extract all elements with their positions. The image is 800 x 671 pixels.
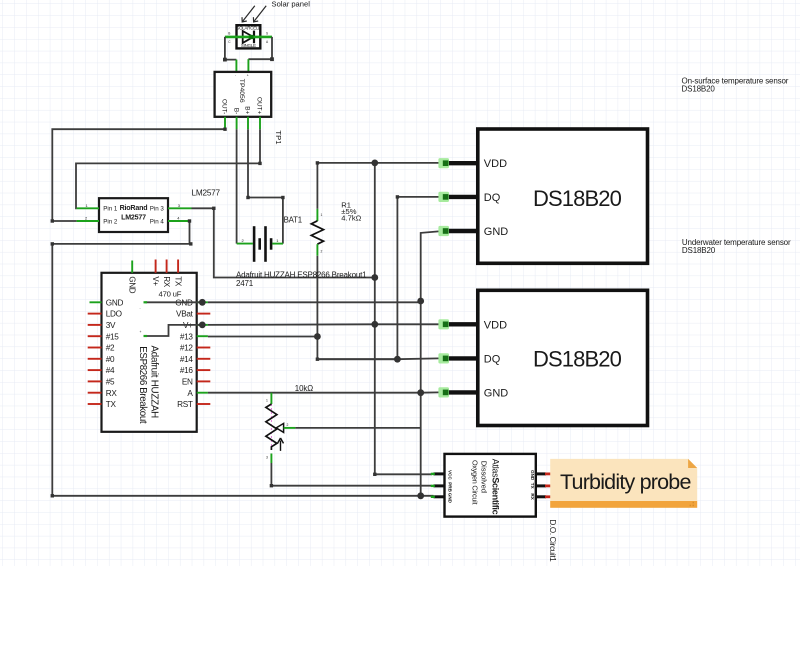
- svg-text:TP1: TP1: [274, 130, 283, 144]
- wire solar right to TP4056 IN+: [248, 37, 272, 59]
- svg-text:-: -: [235, 74, 236, 78]
- solar panel PV1: [225, 25, 272, 48]
- top pin stubs: [131, 261, 133, 273]
- potentiometer 10k: [266, 393, 296, 463]
- svg-text:GND: GND: [106, 298, 124, 307]
- svg-text:RioRand: RioRand: [120, 204, 148, 212]
- svg-text:+: +: [140, 330, 142, 334]
- label Adafruit HUZZAH ESP8266 Breakout1: [236, 270, 367, 288]
- svg-text:TP4056: TP4056: [238, 79, 245, 103]
- svg-text:#5: #5: [106, 378, 115, 387]
- svg-text:VDD: VDD: [484, 158, 507, 170]
- svg-text:OUT-: OUT-: [221, 99, 228, 114]
- svg-text:B-: B-: [232, 108, 239, 114]
- svg-text:SOLARCELL: SOLARCELL: [236, 26, 261, 31]
- Atlas Scientific D.O. circuit U2: [431, 454, 552, 517]
- wire corner square: [373, 473, 376, 476]
- svg-text:DQ: DQ: [484, 192, 501, 204]
- svg-text:B+: B+: [244, 106, 251, 114]
- svg-text:LM2577: LM2577: [121, 213, 146, 221]
- svg-text:GND: GND: [447, 493, 452, 504]
- svg-text:AtlasScientific: AtlasScientific: [490, 459, 500, 515]
- svg-text:1: 1: [321, 213, 323, 217]
- right pins: [536, 474, 546, 497]
- svg-text:Turbidity probe: Turbidity probe: [560, 470, 691, 494]
- wire TP4056 OUT+ to LM2577 Pin1: [76, 129, 260, 208]
- label D.O. Circuit1: [548, 520, 557, 563]
- svg-text:Adafruit HUZZAH: Adafruit HUZZAH: [149, 346, 160, 419]
- svg-text:D.O. Circuit1: D.O. Circuit1: [548, 520, 557, 563]
- wire ESP GND to ground vertical: [208, 301, 421, 303]
- svg-text:GND: GND: [484, 387, 509, 399]
- right stubs green (connected): [197, 302, 208, 392]
- wire DS18B20-1 DQ down: [397, 197, 438, 359]
- svg-text:Pin 4: Pin 4: [150, 218, 165, 225]
- svg-text:Pin 3: Pin 3: [150, 206, 165, 213]
- note Turbidity probe: [550, 459, 697, 508]
- DS18B20 sensor 1: [438, 129, 647, 263]
- wire LM2577 Pin4 to ground bus: [52, 221, 433, 496]
- svg-text:S: S: [266, 31, 268, 35]
- svg-text:RX: RX: [530, 493, 535, 500]
- wire R1 bottom to DQ rail: [317, 256, 397, 360]
- svg-text:DS18B20: DS18B20: [682, 246, 716, 255]
- wire pot bottom to Atlas PRB: [271, 463, 431, 486]
- wire corner square: [270, 484, 273, 487]
- junction squares solar wires: [223, 57, 274, 61]
- svg-text:PRB: PRB: [447, 482, 452, 492]
- wire TP4056 B+ to battery pin1: [248, 129, 283, 243]
- svg-text:EN: EN: [182, 378, 193, 387]
- note label: Solar panel: [272, 0, 311, 9]
- svg-text:-: -: [140, 307, 141, 311]
- annotation Underwater sensor: [682, 238, 791, 255]
- DS18B20 sensor 2: [438, 290, 647, 425]
- svg-text:V+: V+: [151, 276, 160, 286]
- light arrow 1: [242, 6, 255, 22]
- svg-text:Solar panel: Solar panel: [272, 0, 311, 9]
- left pin labels: [106, 298, 124, 409]
- svg-text:Pin 1: Pin 1: [103, 206, 118, 213]
- svg-text:3V: 3V: [106, 321, 116, 330]
- svg-text:DS18B20: DS18B20: [533, 186, 622, 211]
- svg-text:RX: RX: [162, 276, 171, 287]
- ESP8266 breakout U1: [88, 260, 211, 432]
- resistor R1: [311, 209, 323, 256]
- power vertical rail: [375, 163, 432, 474]
- svg-text:Pin 2: Pin 2: [103, 218, 118, 225]
- label TP1: [274, 130, 283, 144]
- svg-text:LM2577: LM2577: [192, 188, 221, 197]
- inner title: [137, 346, 160, 424]
- svg-text:10kΩ: 10kΩ: [295, 384, 313, 393]
- svg-text:#4: #4: [106, 366, 115, 375]
- svg-text:#15: #15: [106, 332, 120, 341]
- svg-text:Adafruit HUZZAH ESP8266 Breako: Adafruit HUZZAH ESP8266 Breakout1: [236, 270, 367, 279]
- boost converter LM2577: [77, 198, 192, 232]
- wire R1 top to VDD rail: [316, 163, 318, 209]
- svg-text:LDO: LDO: [106, 310, 122, 319]
- label R1 value: [341, 200, 361, 222]
- svg-text:RST: RST: [177, 400, 193, 409]
- svg-text:DS18B20: DS18B20: [682, 85, 716, 94]
- svg-text:Dissolved: Dissolved: [480, 461, 489, 493]
- svg-text:#16: #16: [180, 366, 194, 375]
- ground vertical rail: [420, 301, 422, 496]
- svg-text:GND: GND: [127, 276, 136, 293]
- svg-text:TX: TX: [106, 400, 117, 409]
- svg-text:3: 3: [266, 456, 268, 460]
- TP4056 top legs: [236, 59, 248, 72]
- svg-text:#13: #13: [180, 332, 194, 341]
- light arrow 2: [253, 6, 266, 22]
- junction dots: [199, 160, 424, 500]
- svg-text:470 uF: 470 uF: [159, 290, 182, 299]
- wire ESP #13 to DQ rail: [208, 336, 318, 338]
- svg-text:DQ: DQ: [484, 353, 501, 365]
- wire corner square: [396, 195, 399, 198]
- svg-text:#12: #12: [180, 344, 194, 353]
- svg-text:+: +: [247, 74, 249, 78]
- annotation On-surface sensor: [682, 77, 789, 94]
- left stubs: [90, 301, 102, 303]
- wire corner squares: [51, 128, 285, 223]
- left pins: [434, 474, 445, 497]
- label 10k: [295, 384, 313, 393]
- wire DQ rail to DS18B20-2 DQ: [317, 357, 438, 360]
- wire VDD rail to DS18B20-1 VDD: [317, 162, 438, 164]
- wire TP4056 B- to battery pin2: [236, 129, 238, 243]
- wire DS18B20-1 GND down: [421, 231, 439, 301]
- wire ESP V+ to DS18B20-2 VDD: [208, 323, 439, 326]
- svg-text:TX: TX: [530, 483, 535, 490]
- svg-text:BAT1: BAT1: [284, 215, 302, 224]
- svg-text:RX: RX: [106, 389, 118, 398]
- wire TP4056 OUT- to LM2577 Pin2: [52, 129, 225, 221]
- battery BAT1: [237, 226, 283, 262]
- svg-text:2: 2: [287, 423, 289, 427]
- svg-text:A: A: [187, 389, 193, 398]
- wire pot wiper: [295, 427, 420, 429]
- svg-text:GND: GND: [530, 470, 535, 481]
- label LM2577: [192, 188, 221, 197]
- svg-text:ESP8266 Breakout: ESP8266 Breakout: [137, 346, 148, 424]
- label BAT1: [284, 215, 302, 224]
- svg-text:TX: TX: [173, 276, 182, 287]
- capacitor C1 470uF: [140, 290, 203, 336]
- wire LM2577 Pin3 to power junction: [192, 208, 376, 277]
- svg-text:GND: GND: [484, 226, 509, 238]
- svg-text:4.7kΩ: 4.7kΩ: [341, 213, 361, 222]
- svg-text:DS18B20: DS18B20: [533, 347, 622, 372]
- wire corner squares: [316, 161, 319, 361]
- charger module TP4056: [215, 72, 272, 129]
- svg-text:B: B: [228, 31, 230, 35]
- svg-text:2471: 2471: [236, 279, 254, 288]
- wire corner squares: [51, 207, 216, 498]
- wire ESP A to pot / DS18B20-2 GND: [208, 391, 439, 393]
- svg-text:1: 1: [266, 399, 268, 403]
- svg-text:OUT+: OUT+: [256, 97, 263, 114]
- svg-text:#2: #2: [106, 344, 115, 353]
- wire solar left to TP4056 IN-: [225, 37, 237, 60]
- svg-text:#14: #14: [180, 355, 194, 364]
- svg-text:Oxygen Circuit: Oxygen Circuit: [471, 460, 480, 505]
- right pin labels: [175, 298, 193, 409]
- right stubs red: [197, 314, 211, 404]
- svg-text:VDD: VDD: [484, 319, 507, 331]
- svg-text:VCC: VCC: [447, 470, 452, 480]
- svg-text:#0: #0: [106, 355, 115, 364]
- pin labels: [447, 470, 535, 504]
- svg-text:VBat: VBat: [176, 310, 194, 319]
- svg-text:2: 2: [321, 250, 323, 254]
